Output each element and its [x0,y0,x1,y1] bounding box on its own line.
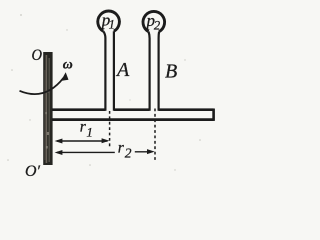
vertical tube A (left wall, right wall) [103,31,105,111]
pressure gauge p2 circle [143,11,165,31]
scan noise specks [7,14,201,171]
horizontal tube: top wall segments [52,108,214,111]
horizontal tube: bottom wall [52,118,214,121]
svg-text:2: 2 [125,146,132,161]
svg-text:1: 1 [109,17,115,31]
dimension line r1 [57,140,108,142]
horizontal tube: right end cap [212,109,215,121]
svg-text:ω: ω [63,57,73,72]
svg-text:2: 2 [154,18,160,32]
dimension line r2 [57,151,153,154]
svg-text:A: A [115,59,130,81]
svg-text:B: B [165,61,177,83]
rotation arrowhead [61,72,69,81]
dashed reference line at B [154,109,156,163]
svg-text:O: O [32,47,43,64]
vertical tube B (left wall, right wall) [149,32,150,111]
dashed reference line at A [109,111,111,148]
svg-text:O′: O′ [25,163,40,180]
svg-text:1: 1 [86,125,93,140]
pressure gauge p1 circle [98,11,120,31]
curved rotation arrow [20,78,64,94]
rotation axis rod O-O' [43,52,52,165]
svg-text:r: r [118,139,125,156]
